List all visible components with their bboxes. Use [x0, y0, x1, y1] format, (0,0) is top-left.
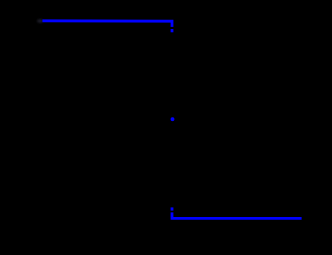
right branch: y = -1 segment with corner hook up — [172, 212, 302, 218]
left branch: y = 1 segment with corner hook down — [42, 21, 172, 27]
upper dash of jump — [171, 29, 174, 32]
midpoint marker — [171, 117, 175, 121]
lower dash of jump — [171, 207, 174, 210]
faint fade-in at left cap of top segment — [37, 19, 43, 22]
